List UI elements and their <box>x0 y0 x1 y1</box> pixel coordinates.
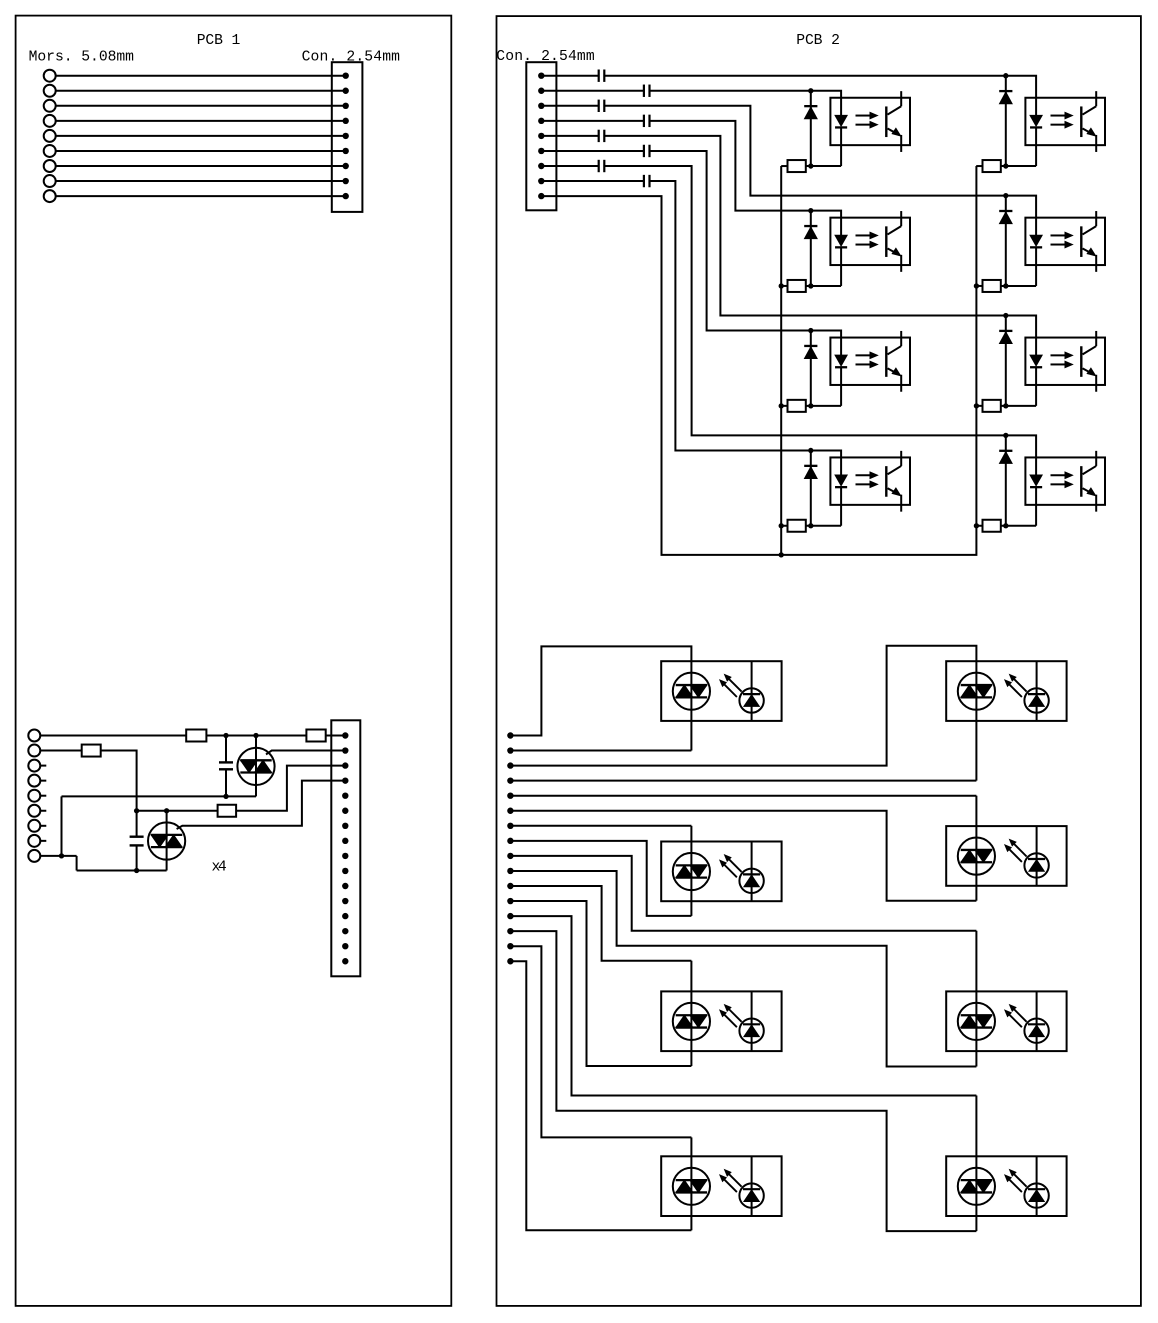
photo-LED of S4 <box>1024 826 1048 886</box>
stub wire on K5 <box>40 795 46 797</box>
wire T16 to S7 MT1 <box>510 961 691 1230</box>
node T10 <box>507 868 513 874</box>
terminal P8 (Mors. 5.08mm pin 8) <box>44 175 56 187</box>
connector J3 (Con. 2.54mm, 9-pin) <box>526 62 556 210</box>
junction left bus / return <box>779 552 784 557</box>
output triac of S8 <box>958 1168 995 1205</box>
wire U2 anode entry <box>811 211 841 236</box>
terminal P7 (Mors. 5.08mm pin 7) <box>44 160 56 172</box>
stub wire on K7 <box>40 825 46 827</box>
resistor R2 <box>306 730 325 742</box>
junction U2 input node <box>808 208 813 213</box>
triac vertical of S6 <box>975 1015 977 1027</box>
resistor R4 <box>218 805 237 817</box>
resistor R3 <box>82 745 101 757</box>
label x4 <box>212 859 227 875</box>
terminal K9 <box>28 850 40 862</box>
svg-text:PCB 2: PCB 2 <box>796 33 840 49</box>
photo-LED of S3 <box>739 842 763 902</box>
LED of U7 <box>1030 355 1042 406</box>
node T15 <box>507 943 513 949</box>
wire U5 resistor to bus <box>976 165 982 167</box>
J2 pin 16 <box>342 958 348 964</box>
diode D2 (input protection) <box>804 211 817 286</box>
light arrows of S2 <box>1005 675 1027 697</box>
diode D6 (input protection) <box>999 196 1012 286</box>
junction right bus row 4 <box>974 523 979 528</box>
opto-coupler U8 package <box>1025 457 1105 504</box>
photo-LED of S1 <box>739 661 763 721</box>
wire bottom rail <box>77 870 167 872</box>
J2 pin 2 <box>342 747 348 753</box>
wire P2 to J1 pin 2 <box>56 90 346 92</box>
light arrows of S4 <box>1005 840 1027 862</box>
photo-LED of S8 <box>1024 1156 1048 1216</box>
wire U8 resistor to bus <box>976 525 982 527</box>
wire P9 to J1 pin 9 <box>56 195 346 197</box>
photo-transistor Q8 <box>1081 451 1096 512</box>
wire U3 anode entry <box>811 331 841 356</box>
wire T1 to S1 MT2 <box>510 646 691 735</box>
wire T4 to S2 MT1 <box>510 697 976 780</box>
light arrows of U5 <box>1051 112 1073 128</box>
J1 pin 8 <box>343 178 349 184</box>
junction U6 return node <box>1003 283 1008 288</box>
label Con. 2.54mm (PCB2) <box>496 49 595 65</box>
diode D5 (input protection) <box>999 76 1012 166</box>
photo-transistor Q3 <box>886 331 901 392</box>
J1 pin 6 <box>343 148 349 154</box>
wire K1 to R1 <box>40 735 186 737</box>
capacitor C10 <box>644 175 650 187</box>
triac vertical of S5 <box>690 1015 692 1027</box>
capacitor C5 <box>599 100 605 112</box>
wire K2 to R3 <box>40 750 81 752</box>
opto-coupler U2 package <box>830 218 910 265</box>
junction node D <box>134 808 139 813</box>
node T1 <box>507 732 513 738</box>
wire T14 to S8 MT1 <box>510 931 976 1231</box>
wire P8 to J1 pin 8 <box>56 180 346 182</box>
resistor R8 <box>788 520 806 532</box>
junction U5 input node <box>1003 73 1008 78</box>
light arrows of S1 <box>720 675 742 697</box>
photo-LED of S7 <box>739 1156 763 1216</box>
wire J3 pin 5 to C7 <box>541 135 598 137</box>
J2 pin 12 <box>342 898 348 904</box>
output triac of S6 <box>958 1003 995 1040</box>
wire R1 to R2 <box>206 735 306 737</box>
label Con. 2.54mm (PCB1) <box>302 50 401 66</box>
light arrows of U2 <box>856 232 878 248</box>
node T8 <box>507 838 513 844</box>
J2 pin 8 <box>342 838 348 844</box>
diode D3 (input protection) <box>804 331 817 406</box>
wire pin7 net to U8 <box>604 166 1006 435</box>
wire U3 return rail <box>806 405 841 407</box>
LED of U6 <box>1030 235 1042 286</box>
wire U7 anode entry <box>1006 316 1036 356</box>
J2 pin 9 <box>342 853 348 859</box>
wire U2 return rail <box>806 285 841 287</box>
photo-transistor Q4 <box>886 451 901 512</box>
resistor R9 <box>983 160 1001 172</box>
wire T9 to S6 MT2 <box>510 856 976 1015</box>
wire U3 resistor to bus <box>781 405 787 407</box>
wire U1 anode entry <box>811 91 841 116</box>
output triac of S2 <box>958 673 995 710</box>
output triac of S1 <box>673 673 710 710</box>
wire J3 pin 8 to C10 <box>541 180 644 182</box>
terminal K5 <box>28 790 40 802</box>
wire U7 resistor to bus <box>976 405 982 407</box>
SSR S8 package <box>946 1156 1066 1216</box>
label Mors. 5.08mm <box>29 50 135 66</box>
junction left bus row 4 <box>779 523 784 528</box>
wire U5 anode entry <box>1006 76 1036 116</box>
wire U6 anode entry <box>1006 196 1036 236</box>
wire U7 return rail <box>1001 405 1036 407</box>
wire P7 to J1 pin 7 <box>56 165 346 167</box>
wire T10 to S6 MT1 <box>510 871 976 1067</box>
photo-LED of S2 <box>1024 661 1048 721</box>
terminal P9 (Mors. 5.08mm pin 9) <box>44 190 56 202</box>
wire J3 pin 1 to C3 <box>541 75 598 77</box>
junction U1 input node <box>808 88 813 93</box>
svg-text:Mors. 5.08mm: Mors. 5.08mm <box>29 50 135 66</box>
triac TR1 <box>237 748 274 785</box>
wire pin5 net to U7 <box>604 136 1006 316</box>
light arrows of U1 <box>856 112 878 128</box>
wire T11 to S5 MT2 <box>510 886 691 1015</box>
junction node C <box>223 794 228 799</box>
node T13 <box>507 913 513 919</box>
PCB 1 board outline <box>16 16 452 1306</box>
wire P5 to J1 pin 5 <box>56 135 346 137</box>
capacitor C4 <box>644 85 650 97</box>
junction right bus row 2 <box>974 283 979 288</box>
wire rail node C <box>62 795 257 797</box>
J2 pin 1 <box>342 732 348 738</box>
wire R3 elbow down <box>101 751 137 837</box>
photo-LED of S5 <box>739 991 763 1051</box>
wire U4 return rail <box>806 525 841 527</box>
node T3 <box>507 762 513 768</box>
resistor R5 <box>788 160 806 172</box>
diode D1 (input protection) <box>804 91 817 166</box>
stub wire on K8 <box>40 840 46 842</box>
photo-transistor Q6 <box>1081 211 1096 272</box>
wire T5 to S4 MT2 <box>510 796 976 850</box>
opto-coupler U5 package <box>1025 98 1105 145</box>
light arrows of S7 <box>720 1170 742 1192</box>
wire TR1 to rail <box>255 773 257 797</box>
LED of U1 <box>835 115 847 166</box>
wire T2 to S1 MT1 <box>510 697 691 750</box>
wire pin6 net to U3 <box>650 151 811 331</box>
capacitor C6 <box>644 115 650 127</box>
wire K9 to rails <box>40 856 76 871</box>
opto-coupler U4 package <box>830 457 910 504</box>
wire U8 anode entry <box>1006 435 1036 475</box>
photo-transistor Q7 <box>1081 331 1096 392</box>
light arrows of S8 <box>1005 1170 1027 1192</box>
node T6 <box>507 808 513 814</box>
J3 pin 1 <box>538 73 544 79</box>
J3 pin 9 <box>538 193 544 199</box>
node T9 <box>507 853 513 859</box>
J2 pin 15 <box>342 943 348 949</box>
wire U6 resistor to bus <box>976 285 982 287</box>
photo-transistor Q5 <box>1081 91 1096 152</box>
wire J3 pin 6 to C8 <box>541 150 644 152</box>
capacitor C9 <box>599 160 605 172</box>
output triac of S3 <box>673 853 710 890</box>
wire node D to R4 <box>137 810 218 812</box>
light arrows of U7 <box>1051 352 1073 368</box>
SSR S7 package <box>661 1156 781 1216</box>
light arrows of S5 <box>720 1005 742 1027</box>
J1 pin 4 <box>343 118 349 124</box>
wire node B to TR1 <box>255 736 257 761</box>
wire pin2 net to U1 <box>650 90 811 92</box>
wire U6 return rail <box>1001 285 1036 287</box>
SSR S6 package <box>946 991 1066 1051</box>
label PCB 1 <box>197 33 241 49</box>
wire node A to C1 <box>225 736 227 763</box>
node T11 <box>507 883 513 889</box>
light arrows of U4 <box>856 472 878 488</box>
wire pin1 net to U5 <box>604 75 1006 77</box>
node T7 <box>507 823 513 829</box>
wire right resistor bus <box>975 166 977 526</box>
J3 pin 5 <box>538 133 544 139</box>
wire node F up to rail <box>61 796 63 856</box>
light arrows of S3 <box>720 855 742 877</box>
junction U3 input node <box>808 328 813 333</box>
terminal P2 (Mors. 5.08mm pin 2) <box>44 85 56 97</box>
junction U8 input node <box>1003 433 1008 438</box>
wire TR2 top <box>166 811 168 835</box>
SSR S4 package <box>946 826 1066 886</box>
junction U6 input node <box>1003 193 1008 198</box>
opto-coupler U1 package <box>830 98 910 145</box>
resistor R11 <box>983 400 1001 412</box>
junction right bus row 3 <box>974 403 979 408</box>
wire T7 to S3 MT2 <box>510 826 691 866</box>
resistor R10 <box>983 280 1001 292</box>
terminal K8 <box>28 835 40 847</box>
J3 pin 2 <box>538 88 544 94</box>
wire T13 to S8 MT2 <box>510 916 976 1180</box>
SSR S1 package <box>661 661 781 721</box>
junction left bus row 2 <box>779 283 784 288</box>
J2 pin 13 <box>342 913 348 919</box>
junction node F <box>59 853 64 858</box>
wire C1 to node C <box>225 769 227 796</box>
junction U4 return node <box>808 523 813 528</box>
opto-coupler U3 package <box>830 338 910 385</box>
photo-transistor Q1 <box>886 91 901 152</box>
J2 pin 6 <box>342 808 348 814</box>
connector J2 (16-pin) <box>331 720 360 976</box>
resistor R1 <box>186 730 206 742</box>
junction TR2 top node <box>164 808 169 813</box>
wire C2 to bottom rail <box>136 845 138 870</box>
J3 pin 4 <box>538 118 544 124</box>
node T5 <box>507 793 513 799</box>
label PCB 2 <box>796 33 840 49</box>
light arrows of S6 <box>1005 1005 1027 1027</box>
LED of U2 <box>835 235 847 286</box>
triac vertical of S3 <box>690 865 692 877</box>
wire P3 to J1 pin 3 <box>56 105 346 107</box>
J2 pin 5 <box>342 793 348 799</box>
wire pin9 common return <box>541 196 976 555</box>
terminal K2 <box>28 745 40 757</box>
wire left resistor bus <box>780 166 782 555</box>
capacitor C7 <box>599 130 605 142</box>
terminal P4 (Mors. 5.08mm pin 4) <box>44 115 56 127</box>
J3 pin 3 <box>538 103 544 109</box>
wire P4 to J1 pin 4 <box>56 120 346 122</box>
node T12 <box>507 898 513 904</box>
resistor R7 <box>788 400 806 412</box>
wire J3 pin 4 to C6 <box>541 120 644 122</box>
terminal P5 (Mors. 5.08mm pin 5) <box>44 130 56 142</box>
junction U8 return node <box>1003 523 1008 528</box>
LED of U8 <box>1030 475 1042 526</box>
SSR S5 package <box>661 991 781 1051</box>
capacitor C8 <box>644 145 650 157</box>
capacitor C1 <box>219 762 233 769</box>
LED of U4 <box>835 475 847 526</box>
J3 pin 7 <box>538 163 544 169</box>
LED of U5 <box>1030 115 1042 166</box>
stub wire on K4 <box>40 780 46 782</box>
gate of TR1 <box>266 751 345 755</box>
svg-text:x4: x4 <box>212 859 227 875</box>
wire R2 to J2 pin 1 <box>326 735 346 737</box>
terminal P6 (Mors. 5.08mm pin 6) <box>44 145 56 157</box>
light arrows of U8 <box>1051 472 1073 488</box>
junction node B <box>253 733 258 738</box>
wire pin4 net to U2 <box>650 121 811 211</box>
connector J1 (Con. 2.54mm, 9-pin) <box>332 62 363 212</box>
diode D7 (input protection) <box>999 316 1012 406</box>
node T14 <box>507 928 513 934</box>
opto-coupler U6 package <box>1025 218 1105 265</box>
terminal P3 (Mors. 5.08mm pin 3) <box>44 100 56 112</box>
wire T15 to S7 MT2 <box>510 946 691 1180</box>
diode D8 (input protection) <box>999 435 1012 525</box>
wire U2 resistor to bus <box>781 285 787 287</box>
node T16 <box>507 958 513 964</box>
light arrows of U6 <box>1051 232 1073 248</box>
wire J3 pin 3 to C5 <box>541 105 598 107</box>
junction U3 return node <box>808 403 813 408</box>
wire R4 to J2 pin 3 <box>236 766 345 811</box>
wire pin8 net to U4 <box>650 181 811 450</box>
terminal K7 <box>28 820 40 832</box>
J2 pin 3 <box>342 762 348 768</box>
J2 pin 10 <box>342 868 348 874</box>
terminal K6 <box>28 805 40 817</box>
stub wire on K6 <box>40 810 46 812</box>
J2 pin 14 <box>342 928 348 934</box>
PCB 2 board outline <box>497 16 1141 1306</box>
triac vertical of S7 <box>690 1180 692 1192</box>
junction node A <box>223 733 228 738</box>
wire U5 return rail <box>1001 165 1036 167</box>
triac vertical of S1 <box>690 685 692 697</box>
SSR S3 package <box>661 842 781 902</box>
light arrows of U3 <box>856 352 878 368</box>
capacitor C3 <box>599 70 605 82</box>
junction U7 input node <box>1003 313 1008 318</box>
triac TR2 <box>148 822 185 859</box>
wire pin3 net to U6 <box>604 106 1006 196</box>
output triac of S7 <box>673 1168 710 1205</box>
gate of TR2 <box>177 781 346 829</box>
resistor R12 <box>983 520 1001 532</box>
LED of U3 <box>835 355 847 406</box>
wire U8 return rail <box>1001 525 1036 527</box>
wire J3 pin 7 to C9 <box>541 165 598 167</box>
node T4 <box>507 777 513 783</box>
triac vertical of S8 <box>975 1180 977 1192</box>
output triac of S5 <box>673 1003 710 1040</box>
J1 pin 3 <box>343 103 349 109</box>
J1 pin 9 <box>343 193 349 199</box>
wire P6 to J1 pin 6 <box>56 150 346 152</box>
junction node E <box>134 868 139 873</box>
photo-LED of S6 <box>1024 991 1048 1051</box>
junction U5 return node <box>1003 163 1008 168</box>
J2 pin 11 <box>342 883 348 889</box>
triac vertical of S4 <box>975 850 977 862</box>
wire J3 pin 2 to C4 <box>541 90 644 92</box>
stub wire on K3 <box>40 765 46 767</box>
diode D4 (input protection) <box>804 450 817 525</box>
wire T8 to S3 MT1 <box>510 841 691 916</box>
J2 pin 7 <box>342 823 348 829</box>
output triac of S4 <box>958 838 995 875</box>
junction U2 return node <box>808 283 813 288</box>
J1 pin 5 <box>343 133 349 139</box>
terminal K3 <box>28 760 40 772</box>
J2 pin 4 <box>342 777 348 783</box>
junction U1 return node <box>808 163 813 168</box>
wire U1 return rail <box>806 165 841 167</box>
wire P1 to J1 pin 1 <box>56 75 346 77</box>
terminal K4 <box>28 775 40 787</box>
wire T3 to S2 MT2 <box>510 646 976 766</box>
SSR S2 package <box>946 661 1066 721</box>
J3 pin 8 <box>538 178 544 184</box>
wire T12 to S5 MT1 <box>510 901 691 1066</box>
photo-transistor Q2 <box>886 211 901 272</box>
J1 pin 7 <box>343 163 349 169</box>
junction U4 input node <box>808 448 813 453</box>
wire U1 resistor to bus <box>781 165 787 167</box>
svg-text:PCB 1: PCB 1 <box>197 33 241 49</box>
node T2 <box>507 747 513 753</box>
triac vertical of S2 <box>975 685 977 697</box>
wire U4 resistor to bus <box>781 525 787 527</box>
resistor R6 <box>788 280 806 292</box>
terminal K1 <box>28 730 40 742</box>
